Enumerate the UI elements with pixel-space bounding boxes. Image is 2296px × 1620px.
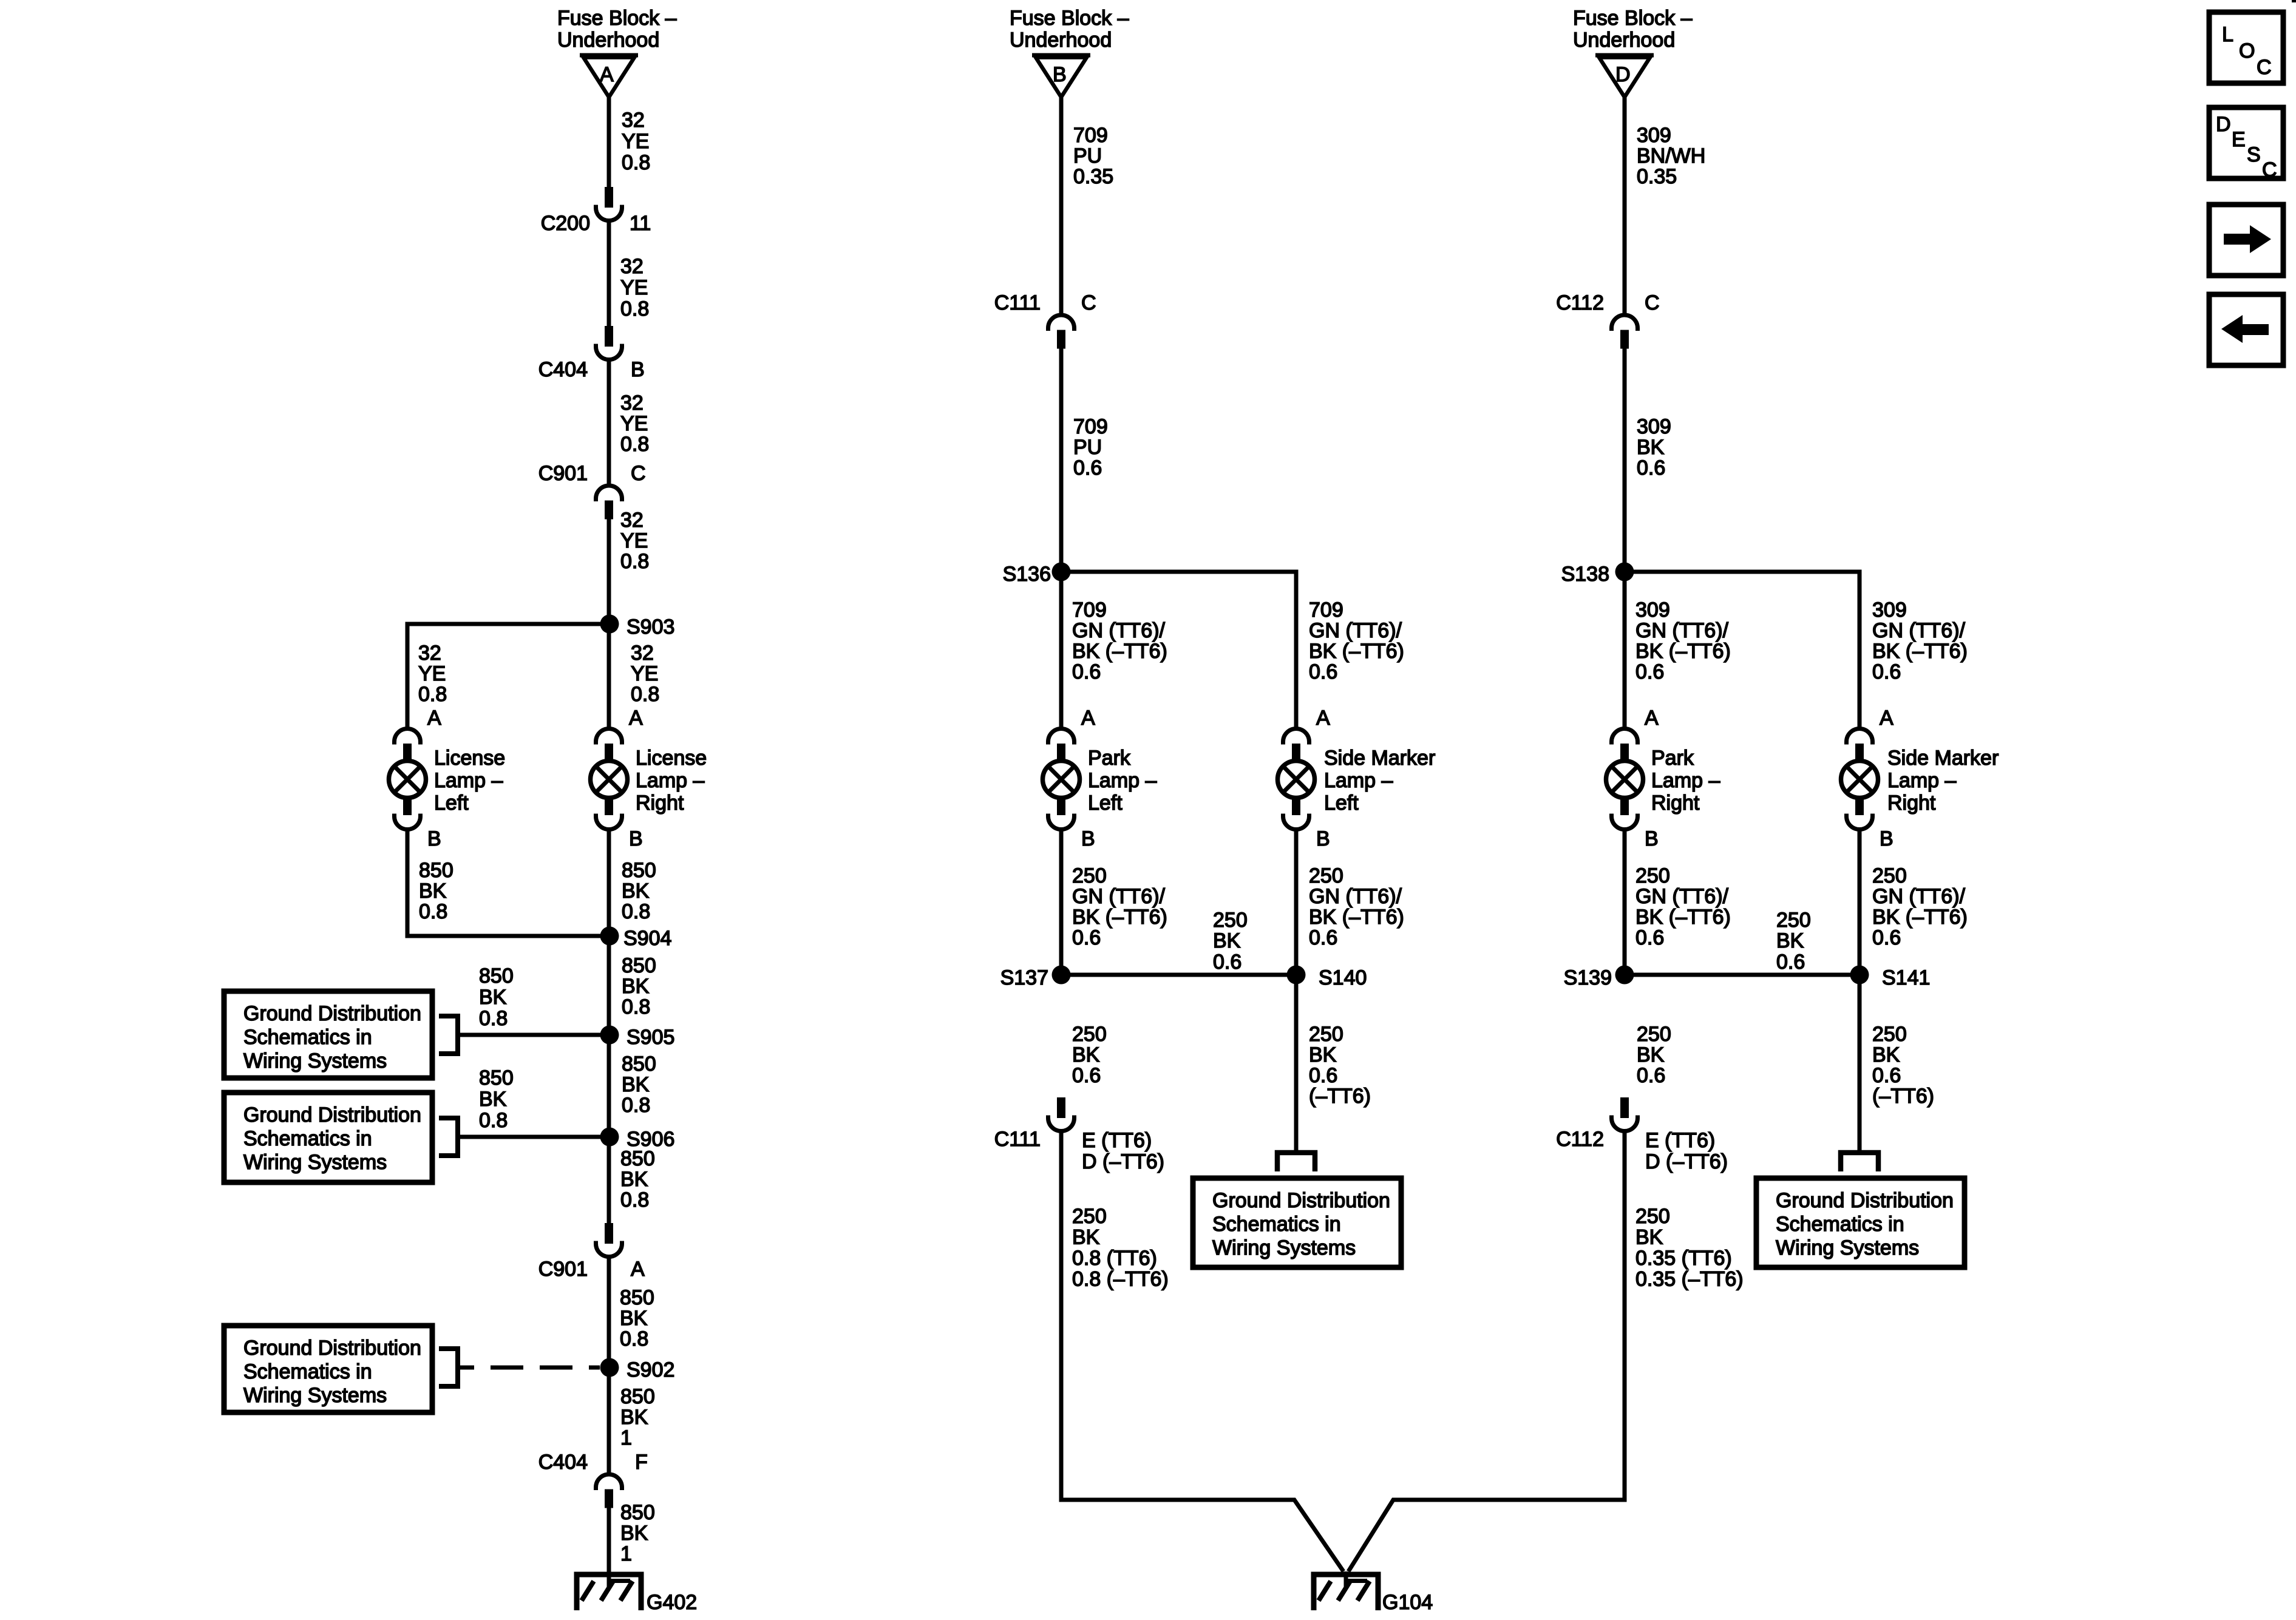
svg-text:Lamp –: Lamp – [1887,769,1956,792]
svg-text:32: 32 [418,642,441,665]
svg-text:C111: C111 [994,291,1041,314]
ground distribution box 3 [224,1326,432,1412]
svg-text:Underhood: Underhood [557,29,659,52]
wire label 850 BK 0.8 [622,1052,656,1117]
svg-text:0.8 (–TT6): 0.8 (–TT6) [1072,1268,1169,1291]
svg-text:S138: S138 [1561,563,1609,586]
icon DESC [2209,107,2283,181]
svg-text:S139: S139 [1564,966,1612,989]
wire 309 BN/WH from fuse D [1623,97,1627,314]
svg-text:32: 32 [631,642,654,665]
svg-text:BK: BK [1637,436,1665,459]
wire label 250 BK 0.6 jumper [1776,909,1811,974]
svg-text:1: 1 [620,1426,632,1449]
wire box1 to S905 [457,1033,610,1037]
bracket right ground box [1841,1153,1878,1171]
svg-text:0.8: 0.8 [620,1327,648,1351]
side marker lamp right [1841,729,1999,830]
ground G104 [1311,1571,1433,1614]
svg-text:B: B [1316,827,1330,850]
svg-text:A: A [1316,707,1330,730]
svg-text:BK: BK [1776,929,1804,952]
svg-text:Underhood: Underhood [1573,29,1675,52]
svg-text:C: C [1645,291,1660,314]
wire label 309 BK 0.6 [1637,415,1671,480]
connector C112 pin E/D [1556,1097,1728,1173]
svg-text:C901: C901 [538,1258,588,1281]
svg-text:0.8: 0.8 [631,683,659,706]
svg-text:BK (–TT6): BK (–TT6) [1072,906,1167,929]
svg-text:C901: C901 [538,462,588,485]
svg-text:Right: Right [1651,791,1700,815]
svg-text:C404: C404 [538,1451,588,1474]
svg-text:709: 709 [1073,415,1108,438]
svg-text:0.35 (TT6): 0.35 (TT6) [1635,1247,1732,1270]
svg-text:YE: YE [418,662,446,685]
svg-text:709: 709 [1072,598,1107,622]
wire label 32 YE 0.8 [620,255,649,320]
wire side marker left B to S140 [1294,830,1299,975]
svg-text:YE: YE [622,130,649,153]
svg-text:0.6: 0.6 [1637,456,1665,480]
wire branch S903 to left lamp [407,624,610,729]
svg-text:B: B [1053,63,1067,86]
svg-text:BK: BK [1635,1226,1663,1249]
wire S139 to S141 [1625,973,1860,977]
wire park right B to S139 [1623,830,1627,975]
connector C901 pin C [538,462,646,520]
svg-text:BK: BK [1872,1043,1900,1066]
svg-text:BK (–TT6): BK (–TT6) [1309,906,1404,929]
connector C111 pin C [994,291,1096,349]
svg-text:Right: Right [1887,791,1936,815]
svg-text:250: 250 [1309,864,1343,887]
fuse block triangle A [580,55,638,97]
svg-text:D: D [1615,63,1631,86]
connector C200 pin 11 [541,187,651,235]
wire label 250 GN/BK 0.6 [1635,864,1731,949]
svg-text:GN (TT6)/: GN (TT6)/ [1635,885,1729,908]
svg-text:G104: G104 [1382,1591,1433,1614]
splice S139 [1564,966,1634,990]
svg-text:D (–TT6): D (–TT6) [1645,1150,1728,1173]
wire label 250 BK 0.6 [1637,1023,1671,1087]
svg-text:C111: C111 [994,1128,1041,1151]
wire label 850 BK 0.8 [620,1286,654,1351]
svg-text:850: 850 [622,859,656,882]
svg-text:O: O [2239,39,2255,63]
wire C112 to G104 [1348,1130,1625,1571]
svg-text:Park: Park [1088,747,1131,770]
wire label 32 YE 0.8 left branch [418,642,447,706]
svg-text:F: F [635,1451,648,1474]
svg-text:0.8: 0.8 [418,683,447,706]
wire S903 down to right lamp [607,624,611,729]
fuse block D title [1573,7,1693,52]
svg-text:1: 1 [620,1542,632,1565]
wire 32 YE C404 to C901 [607,358,611,484]
svg-text:PU: PU [1073,144,1102,168]
svg-text:250: 250 [1635,1205,1670,1228]
svg-text:B: B [1645,827,1659,850]
svg-text:850: 850 [479,964,514,988]
svg-text:GN (TT6)/: GN (TT6)/ [1072,885,1166,908]
splice S902 [600,1358,675,1382]
svg-text:709: 709 [1309,598,1343,622]
svg-text:G402: G402 [647,1591,697,1614]
svg-text:BK: BK [1309,1043,1337,1066]
svg-text:250: 250 [1635,864,1670,887]
svg-text:Lamp –: Lamp – [434,769,503,792]
ground G402 [574,1571,698,1614]
svg-text:0.6: 0.6 [1309,660,1337,683]
svg-text:License: License [636,747,707,770]
wire label 32 YE 0.8 right branch [631,642,659,706]
svg-text:Schematics in: Schematics in [243,1360,372,1383]
wire label 250 GN/BK 0.6 [1309,864,1404,949]
svg-text:YE: YE [631,662,658,685]
svg-text:BK: BK [620,1522,648,1545]
wire S137 to S140 [1061,973,1296,977]
wire label 250 BK 0.6 [1072,1023,1107,1087]
connector C404 pin F [538,1451,648,1508]
svg-text:E: E [2232,128,2246,151]
svg-text:(–TT6): (–TT6) [1309,1085,1371,1108]
svg-text:L: L [2222,23,2233,46]
wire label 709 PU 0.6 [1073,415,1108,480]
wire side marker right B to S141 [1858,830,1862,975]
wire label 850 BK 0.8 left [419,859,453,923]
page corner mark [2292,0,2296,2]
svg-text:Right: Right [636,791,684,815]
svg-text:C112: C112 [1556,1128,1604,1151]
svg-text:0.8: 0.8 [620,550,649,573]
svg-text:PU: PU [1073,436,1102,459]
svg-text:Lamp –: Lamp – [1088,769,1156,792]
svg-text:Wiring Systems: Wiring Systems [243,1049,387,1073]
svg-text:250: 250 [1872,1023,1907,1046]
splice S136 [1003,563,1071,586]
connector C404 pin B [538,326,645,381]
svg-text:S136: S136 [1003,563,1051,586]
park lamp left [1043,729,1157,830]
svg-text:BK (–TT6): BK (–TT6) [1872,906,1968,929]
svg-text:0.6: 0.6 [1309,926,1337,949]
wire branch S136 to side marker left [1061,572,1296,729]
svg-text:GN (TT6)/: GN (TT6)/ [1072,619,1166,642]
wire label 709 PU 0.35 [1073,124,1113,188]
svg-text:Underhood: Underhood [1010,29,1112,52]
splice S137 [1000,966,1071,990]
svg-text:C: C [2257,56,2272,79]
svg-text:A: A [1645,707,1659,730]
wire label 850 BK 1 [620,1385,655,1449]
svg-text:0.6: 0.6 [1072,926,1101,949]
svg-text:S: S [2247,143,2261,166]
svg-text:0.35: 0.35 [1637,165,1677,188]
wire C111 to G104 [1061,1130,1343,1571]
svg-text:YE: YE [620,276,648,299]
svg-text:0.6: 0.6 [1776,951,1805,974]
svg-text:A: A [600,63,614,86]
svg-text:250: 250 [1637,1023,1671,1046]
svg-text:0.8: 0.8 [479,1007,508,1030]
wire label 250 GN/BK 0.6 [1072,864,1167,949]
svg-text:S903: S903 [627,615,674,639]
splice S140 [1287,966,1367,990]
svg-text:YE: YE [620,529,648,552]
svg-text:A: A [629,707,643,730]
wire S905 to S906 [607,1035,611,1137]
bracket box 3 [439,1349,458,1386]
svg-text:850: 850 [622,954,656,977]
svg-text:Left: Left [1324,791,1359,815]
wire label 709 GN/BK 0.6 [1309,598,1404,683]
svg-text:Wiring Systems: Wiring Systems [243,1151,387,1174]
svg-text:S141: S141 [1882,966,1930,989]
svg-text:A: A [631,1258,645,1281]
dashed wire box3 to S902 [460,1366,600,1370]
svg-text:0.6: 0.6 [1872,1064,1901,1087]
svg-text:Wiring Systems: Wiring Systems [1776,1236,1919,1259]
svg-text:Ground Distribution: Ground Distribution [243,1002,421,1025]
svg-text:0.6: 0.6 [1872,926,1901,949]
svg-text:Fuse Block –: Fuse Block – [557,7,677,30]
svg-text:D (–TT6): D (–TT6) [1082,1150,1164,1173]
splice S141 [1850,966,1931,990]
svg-text:850: 850 [620,1286,654,1309]
wire C901 A to S902 [607,1255,611,1368]
wire label 850 BK 0.8 box2 [479,1066,514,1132]
svg-text:0.8: 0.8 [622,995,650,1018]
svg-text:BK: BK [419,879,447,903]
wire label 309 GN/BK 0.6 [1872,598,1968,683]
svg-text:309: 309 [1635,598,1670,622]
wire S904 to S905 [607,936,611,1035]
ground distribution box 1 [224,991,432,1078]
svg-text:GN (TT6)/: GN (TT6)/ [1635,619,1729,642]
wire label 250 BK 0.8 [1072,1205,1169,1291]
connector C112 pin C [1556,291,1659,349]
wire S138 down to park lamp right [1623,572,1627,729]
svg-text:BK: BK [622,975,650,998]
svg-text:Schematics in: Schematics in [243,1127,372,1150]
svg-text:(–TT6): (–TT6) [1872,1085,1934,1108]
wire C404 F to G402 [607,1506,611,1589]
svg-text:Park: Park [1651,747,1694,770]
svg-text:BK: BK [1637,1043,1665,1066]
svg-text:Left: Left [434,791,469,815]
icon LOC [2209,12,2283,83]
splice S906 [600,1128,675,1151]
svg-text:0.6: 0.6 [1213,951,1241,974]
svg-text:C112: C112 [1556,291,1604,314]
svg-text:250: 250 [1309,1023,1343,1046]
side marker lamp left [1278,729,1436,830]
svg-text:BK: BK [622,879,650,903]
svg-text:YE: YE [620,412,648,435]
svg-text:Ground Distribution: Ground Distribution [1212,1189,1390,1212]
svg-text:BK (–TT6): BK (–TT6) [1872,640,1968,663]
svg-text:0.6: 0.6 [1309,1064,1337,1087]
wire S140 to ground ref bracket [1294,975,1299,1153]
svg-text:0.8: 0.8 [622,151,650,174]
svg-text:0.6: 0.6 [1635,660,1664,683]
svg-text:Ground Distribution: Ground Distribution [1776,1189,1954,1212]
svg-text:S137: S137 [1000,966,1048,989]
wire 32 YE from fuse A [607,97,611,188]
svg-text:Lamp –: Lamp – [1651,769,1720,792]
svg-text:Side Marker: Side Marker [1887,747,1999,770]
wire 32 YE C901 to S903 [607,517,611,624]
wire label 32 YE 0.8 [622,109,650,174]
wire S906 to C901 A [607,1137,611,1224]
svg-text:Schematics in: Schematics in [243,1026,372,1049]
svg-text:250: 250 [1072,864,1107,887]
park lamp right [1606,729,1720,830]
svg-text:BK: BK [479,1088,507,1111]
svg-text:Side Marker: Side Marker [1324,747,1435,770]
bracket box 1 [439,1016,458,1054]
svg-text:32: 32 [620,255,644,278]
svg-text:C404: C404 [538,358,588,381]
fuse block triangle D [1595,55,1654,97]
svg-text:0.6: 0.6 [1072,660,1101,683]
ground distribution box right [1756,1178,1965,1267]
svg-text:A: A [427,707,441,730]
svg-text:250: 250 [1872,864,1907,887]
svg-text:250: 250 [1776,909,1811,932]
svg-text:Ground Distribution: Ground Distribution [243,1103,421,1127]
svg-text:C: C [1081,291,1096,314]
wire branch S138 to side marker right [1625,572,1860,729]
svg-text:GN (TT6)/: GN (TT6)/ [1872,619,1966,642]
wire label 850 BK 0.8 [620,1147,655,1212]
svg-text:0.8: 0.8 [622,900,650,923]
wire label 850 BK 0.8 box1 [479,964,514,1030]
svg-text:0.8: 0.8 [620,297,649,320]
splice S903 [600,615,675,639]
svg-text:0.8 (TT6): 0.8 (TT6) [1072,1247,1157,1270]
connector C901 pin A [538,1223,645,1281]
svg-text:BK: BK [1072,1043,1100,1066]
svg-text:250: 250 [1072,1205,1107,1228]
svg-text:850: 850 [622,1052,656,1076]
svg-text:Lamp –: Lamp – [636,769,704,792]
svg-text:BK (–TT6): BK (–TT6) [1072,640,1167,663]
wire S141 to ground ref bracket [1858,975,1862,1153]
wire park left B to S137 [1059,830,1064,975]
svg-text:S904: S904 [623,927,671,950]
svg-text:850: 850 [479,1066,514,1090]
wire label 850 BK 1 [620,1501,655,1565]
wire left lamp B to S904 [407,830,610,936]
ground distribution box mid [1193,1178,1401,1267]
svg-text:0.35: 0.35 [1073,165,1113,188]
wire 32 YE C200 to C404 [607,219,611,327]
wire label 850 BK 0.8 [622,954,656,1018]
svg-text:Wiring Systems: Wiring Systems [243,1384,387,1407]
wire label 250 BK 0.6 (-TT6) [1309,1023,1371,1108]
wire label 32 YE 0.8 [620,509,649,573]
wire label 250 BK 0.6 (-TT6) [1872,1023,1934,1108]
splice S904 [600,927,672,951]
license lamp left [389,729,506,830]
svg-text:0.35 (–TT6): 0.35 (–TT6) [1635,1268,1744,1291]
svg-text:C: C [2262,158,2277,181]
svg-text:C: C [631,462,646,485]
svg-text:32: 32 [620,391,644,415]
license lamp right [591,729,707,830]
svg-text:850: 850 [620,1385,655,1408]
svg-text:B: B [629,827,643,850]
svg-text:S140: S140 [1319,966,1367,989]
svg-text:32: 32 [622,109,645,132]
svg-text:0.6: 0.6 [1637,1064,1665,1087]
svg-text:E (TT6): E (TT6) [1645,1129,1715,1152]
svg-text:309: 309 [1637,415,1671,438]
icon arrow right [2209,205,2283,276]
svg-text:E (TT6): E (TT6) [1082,1129,1152,1152]
svg-text:Wiring Systems: Wiring Systems [1212,1236,1356,1259]
svg-text:B: B [1880,827,1894,850]
wire label 709 GN/BK 0.6 [1072,598,1167,683]
svg-text:0.6: 0.6 [1072,1064,1101,1087]
fuse block triangle B [1032,55,1090,97]
svg-text:Fuse Block –: Fuse Block – [1573,7,1693,30]
wire label 250 GN/BK 0.6 [1872,864,1968,949]
svg-text:S902: S902 [627,1358,674,1381]
svg-text:BK (–TT6): BK (–TT6) [1635,640,1731,663]
svg-text:850: 850 [419,859,453,882]
wire S902 to C404 F [607,1368,611,1473]
svg-text:A: A [1880,707,1894,730]
ground distribution box 2 [224,1093,432,1182]
wire C111 to S136 [1059,347,1064,572]
wire label 250 BK 0.35 [1635,1205,1744,1291]
splice S138 [1561,563,1634,586]
svg-text:B: B [427,827,441,850]
svg-text:0.8: 0.8 [620,433,649,456]
splice S905 [600,1026,675,1049]
fuse block A title [557,7,677,52]
icon arrow left [2209,294,2283,365]
wire right lamp B to S904 [607,830,611,936]
svg-text:BK: BK [620,1307,648,1330]
svg-text:Schematics in: Schematics in [1212,1213,1341,1236]
svg-text:GN (TT6)/: GN (TT6)/ [1309,885,1402,908]
fuse block B title [1010,7,1129,52]
wire S136 down to park lamp left [1059,572,1064,729]
svg-text:D: D [2216,113,2231,136]
svg-text:BK: BK [479,986,507,1009]
svg-text:C200: C200 [541,212,590,235]
svg-text:GN (TT6)/: GN (TT6)/ [1872,885,1966,908]
svg-text:B: B [631,358,645,381]
bracket mid ground box [1277,1153,1315,1171]
svg-text:BN/WH: BN/WH [1637,144,1705,168]
svg-text:License: License [434,747,505,770]
wire label 250 BK 0.6 jumper [1213,909,1248,974]
svg-text:BK: BK [620,1168,648,1191]
svg-text:BK: BK [1072,1226,1100,1249]
svg-text:250: 250 [1072,1023,1107,1046]
svg-text:Fuse Block –: Fuse Block – [1010,7,1129,30]
svg-text:0.6: 0.6 [1635,926,1664,949]
svg-text:BK (–TT6): BK (–TT6) [1635,906,1731,929]
bracket box 2 [439,1118,458,1156]
svg-text:709: 709 [1073,124,1108,147]
